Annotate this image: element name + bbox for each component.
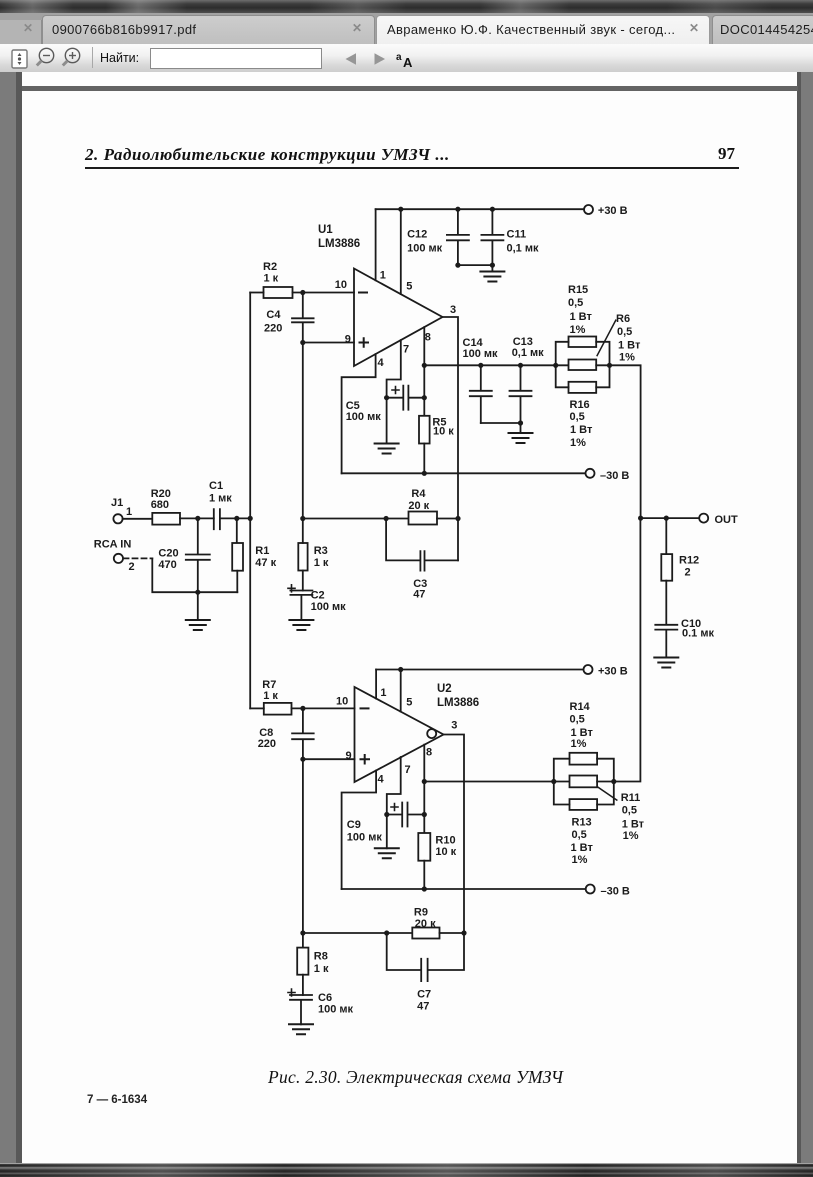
label U1	[318, 224, 360, 250]
terminal +30 V lower	[584, 665, 628, 677]
svg-text:9: 9	[346, 750, 352, 762]
wire RCA2 down and right	[152, 558, 237, 592]
svg-text:220: 220	[264, 323, 282, 335]
svg-text:10: 10	[335, 279, 347, 291]
resistor R15	[568, 284, 596, 347]
svg-text:1%: 1%	[572, 854, 588, 866]
svg-text:8: 8	[425, 332, 431, 344]
svg-text:8: 8	[426, 747, 432, 759]
resistor R7	[262, 679, 291, 715]
svg-text:RCA IN: RCA IN	[94, 539, 132, 551]
svg-text:5: 5	[406, 696, 412, 708]
resistor R16	[569, 382, 597, 449]
svg-text:10: 10	[336, 696, 348, 708]
svg-text:1 к: 1 к	[314, 557, 329, 569]
svg-text:9: 9	[345, 334, 351, 346]
node R7-C8 junction	[300, 706, 305, 711]
wire pin 9 U2	[303, 758, 355, 760]
svg-text:1 Вт: 1 Вт	[570, 424, 593, 436]
svg-text:470: 470	[158, 559, 176, 571]
terminal RCA IN	[94, 539, 135, 574]
svg-text:+30 В: +30 В	[598, 205, 628, 217]
node left bus junction	[553, 363, 558, 368]
svg-text:1 к: 1 к	[264, 273, 279, 285]
wire C1 right	[220, 517, 251, 519]
pin 7 U2 with jog	[387, 757, 411, 815]
resistor R1	[232, 518, 276, 592]
wire J1 to R20	[123, 518, 153, 520]
node feedback output junction U2	[461, 930, 466, 935]
ground under C6	[289, 1024, 313, 1034]
wire R6 right to OUT drop	[596, 365, 640, 518]
op-amp U1	[354, 269, 443, 367]
resistor R6	[569, 313, 641, 370]
wire R7 to pin 10 U2	[292, 707, 355, 709]
terminal J1	[111, 497, 132, 523]
pin 5 U1	[401, 209, 413, 294]
pin 8 U1 line	[424, 327, 431, 416]
svg-text:1 Вт: 1 Вт	[571, 842, 594, 854]
wire feedback row U2	[303, 932, 412, 934]
capacitor C3	[386, 519, 458, 601]
pin 3 U1 output wire	[443, 304, 459, 560]
wire C14-C13 bottom row	[481, 422, 521, 424]
svg-text:100 мк: 100 мк	[347, 832, 383, 844]
node C9 left junction	[384, 812, 389, 817]
node C20 bottom junction	[195, 590, 200, 595]
wire pin 9 U1	[303, 342, 354, 344]
svg-text:R13: R13	[572, 817, 592, 829]
node C5 right junction	[422, 395, 427, 400]
wire pin9 node down to feedback row U2	[302, 759, 304, 933]
svg-text:47: 47	[413, 589, 425, 601]
pin 4 U1 with jog	[342, 354, 385, 473]
node input split junction	[248, 516, 253, 521]
svg-text:47 к: 47 к	[255, 557, 276, 569]
wire feedback row U1	[303, 518, 409, 520]
capacitor C10	[655, 581, 714, 658]
svg-text:R16: R16	[570, 399, 590, 411]
svg-text:R2: R2	[263, 261, 277, 273]
node pin8 mute row junction U2	[422, 779, 427, 784]
svg-text:4: 4	[378, 357, 385, 369]
node pin8 mute row junction	[422, 363, 427, 368]
wire R9 right	[440, 932, 465, 934]
wire RCA2 dashed	[124, 557, 153, 559]
terminal -30 V upper	[586, 469, 630, 482]
pin 1 U1	[376, 209, 386, 281]
svg-text:LM3886: LM3886	[318, 238, 360, 250]
capacitor C6	[288, 989, 354, 1024]
svg-text:7: 7	[403, 344, 409, 356]
svg-text:C11: C11	[507, 229, 527, 241]
wire mute row U1	[424, 364, 568, 366]
svg-text:1: 1	[380, 270, 386, 282]
node OUT vertical junction	[638, 516, 643, 521]
resistor R9	[412, 907, 439, 939]
svg-text:220: 220	[258, 738, 276, 750]
svg-text:C12: C12	[407, 229, 427, 241]
ground under C20	[186, 592, 210, 630]
svg-text:R11: R11	[621, 792, 641, 804]
node C4-pin9 junction	[300, 340, 305, 345]
svg-text:0,5: 0,5	[568, 297, 583, 309]
svg-text:R10: R10	[435, 835, 455, 847]
pin 5 U2	[401, 670, 413, 712]
svg-text:10 к: 10 к	[435, 846, 456, 858]
svg-text:R1: R1	[255, 545, 269, 557]
node R1 top junction	[234, 516, 239, 521]
node C8-pin9 junction U2	[300, 757, 305, 762]
ground under C10	[654, 658, 678, 668]
wire input vertical R2 to R7	[249, 293, 251, 709]
svg-text:100 мк: 100 мк	[463, 348, 499, 360]
svg-text:1 Вт: 1 Вт	[618, 340, 641, 352]
svg-text:1: 1	[126, 506, 132, 518]
node pin5 rail junction U2	[398, 667, 403, 672]
svg-text:1 Вт: 1 Вт	[570, 311, 593, 323]
svg-text:C20: C20	[158, 548, 178, 560]
wire +30V rail U2	[376, 669, 584, 671]
terminal -30 V lower	[586, 885, 630, 898]
wire R2 to pin 10	[293, 292, 355, 294]
capacitor C4	[264, 293, 314, 343]
svg-text:C6: C6	[318, 992, 332, 1004]
resistor R13	[570, 799, 598, 866]
svg-text:3: 3	[450, 304, 456, 316]
resistor R8	[297, 933, 329, 995]
resistor R11	[570, 776, 645, 843]
svg-text:1%: 1%	[619, 352, 635, 364]
svg-text:C9: C9	[347, 819, 361, 831]
wire R5 bottom	[423, 444, 425, 474]
capacitor C8	[258, 708, 314, 759]
svg-text:1%: 1%	[571, 738, 587, 750]
svg-text:R8: R8	[314, 951, 328, 963]
svg-text:10 к: 10 к	[433, 426, 454, 438]
svg-text:U2: U2	[437, 683, 452, 695]
svg-text:1%: 1%	[623, 830, 639, 842]
svg-text:1%: 1%	[570, 437, 586, 449]
svg-text:LM3886: LM3886	[437, 697, 479, 709]
wire upper ballast left bus	[556, 342, 569, 388]
svg-text:1 мк: 1 мк	[209, 493, 232, 505]
svg-text:1 к: 1 к	[314, 963, 329, 975]
svg-text:OUT: OUT	[715, 514, 739, 526]
pin 7 U1 with jog	[387, 340, 410, 398]
svg-text:1 к: 1 к	[263, 690, 278, 702]
node feedback output junction	[455, 516, 460, 521]
resistor R3	[298, 519, 329, 591]
capacitor C9	[347, 803, 425, 844]
node R10 on -30V rail	[422, 886, 427, 891]
wire pin9 node down to feedback row	[302, 343, 304, 519]
svg-text:1 Вт: 1 Вт	[622, 819, 645, 831]
svg-text:R6: R6	[616, 313, 630, 325]
svg-text:0,1 мк: 0,1 мк	[512, 347, 544, 359]
wire R10 bottom	[423, 861, 425, 889]
svg-text:0,1 мк: 0,1 мк	[507, 243, 539, 255]
wire -30V rail U1	[342, 472, 587, 474]
svg-text:–30 В: –30 В	[600, 470, 629, 482]
svg-text:R4: R4	[411, 488, 426, 500]
terminal +30 V upper	[584, 205, 628, 217]
wire R11 right to OUT drop	[597, 518, 640, 781]
wire mute row U2	[424, 781, 569, 783]
svg-text:3: 3	[451, 720, 457, 732]
wire R2 left	[250, 292, 263, 294]
wire R4 right	[437, 518, 458, 520]
svg-text:R3: R3	[314, 545, 328, 557]
capacitor C5	[346, 386, 425, 423]
svg-text:20 к: 20 к	[415, 918, 436, 930]
node R3 top junction	[300, 516, 305, 521]
ground pin 7 U2	[375, 815, 399, 859]
wire R20 to C1	[180, 517, 214, 519]
pin 1 U2	[376, 670, 386, 700]
svg-text:7: 7	[405, 764, 411, 776]
node R12 top junction	[664, 516, 669, 521]
svg-text:0,5: 0,5	[570, 714, 585, 726]
svg-text:1%: 1%	[570, 324, 586, 336]
svg-text:0.1 мк: 0.1 мк	[682, 628, 714, 640]
resistor R14	[570, 701, 598, 765]
svg-text:R9: R9	[414, 907, 428, 919]
node right bus junction	[607, 363, 612, 368]
ground pin 7 U1	[375, 398, 399, 454]
node C9 right junction	[422, 812, 427, 817]
svg-text:1: 1	[380, 687, 386, 699]
svg-text:R15: R15	[568, 284, 588, 296]
wire lower ballast left bus	[554, 759, 570, 805]
pin 3 U2 output wire	[444, 720, 465, 933]
svg-text:0,5: 0,5	[572, 829, 587, 841]
svg-text:R14: R14	[570, 701, 591, 713]
resistor R10	[418, 833, 456, 861]
node C3 left junction	[384, 516, 389, 521]
capacitor C7	[387, 933, 464, 1013]
capacitor C14	[463, 337, 499, 423]
svg-text:4: 4	[378, 774, 385, 786]
svg-text:5: 5	[406, 281, 412, 293]
wire R7 left	[250, 707, 264, 709]
capacitor C11	[481, 207, 539, 268]
resistor R20	[151, 488, 180, 525]
svg-text:J1: J1	[111, 497, 123, 509]
capacitor C13	[510, 336, 545, 426]
wire upper ballast right bus	[596, 342, 609, 388]
resistor R4	[408, 488, 437, 525]
node R8 top junction	[300, 930, 305, 935]
svg-text:0,5: 0,5	[622, 805, 637, 817]
resistor R12	[661, 518, 699, 581]
resistor R5	[419, 416, 454, 444]
svg-text:2: 2	[129, 561, 135, 573]
svg-text:C7: C7	[417, 989, 431, 1001]
svg-text:0,5: 0,5	[570, 411, 585, 423]
svg-text:U1: U1	[318, 224, 333, 236]
node R2-C4 junction	[300, 290, 305, 295]
svg-text:–30 В: –30 В	[601, 885, 630, 897]
node C5 left junction	[384, 395, 389, 400]
ground under C11	[480, 265, 504, 281]
op-amp U2	[355, 687, 444, 782]
capacitor C20	[158, 518, 209, 592]
svg-text:2: 2	[685, 567, 691, 579]
capacitor C1	[209, 480, 232, 529]
svg-text:0,5: 0,5	[617, 326, 632, 338]
capacitor C12	[407, 207, 469, 268]
pin 4 U2 with jog	[342, 771, 385, 890]
svg-text:100 мк: 100 мк	[318, 1004, 354, 1016]
wire C12-C11 bottom row	[458, 264, 493, 266]
svg-text:47: 47	[417, 1001, 429, 1013]
svg-text:100 мк: 100 мк	[311, 601, 347, 613]
svg-text:680: 680	[151, 499, 169, 511]
svg-text:C1: C1	[209, 480, 223, 492]
wire lower ballast right bus	[597, 759, 614, 805]
node R5 on -30V rail	[422, 471, 427, 476]
node C7 left junction	[384, 930, 389, 935]
svg-text:R12: R12	[679, 555, 699, 567]
svg-text:C4: C4	[266, 309, 281, 321]
svg-text:C2: C2	[311, 590, 325, 602]
svg-text:+30 В: +30 В	[598, 665, 628, 677]
terminal OUT	[699, 514, 738, 526]
resistor R2	[263, 261, 293, 298]
pin 8 U2 line	[424, 745, 432, 833]
wire +30V rail U1	[376, 208, 585, 210]
node lower right bus junction	[611, 779, 616, 784]
wire -30V rail U2	[342, 888, 587, 890]
node C20 top junction	[195, 516, 200, 521]
ground under C13	[509, 423, 533, 443]
svg-text:20 к: 20 к	[408, 500, 429, 512]
node pin5 rail junction	[398, 207, 403, 212]
node lower left bus junction	[551, 779, 556, 784]
capacitor C2	[288, 585, 346, 620]
wire OUT row	[641, 517, 700, 519]
svg-text:100 мк: 100 мк	[346, 411, 382, 423]
ground under C2	[289, 620, 313, 630]
svg-text:100 мк: 100 мк	[407, 243, 443, 255]
label U2	[437, 683, 479, 709]
